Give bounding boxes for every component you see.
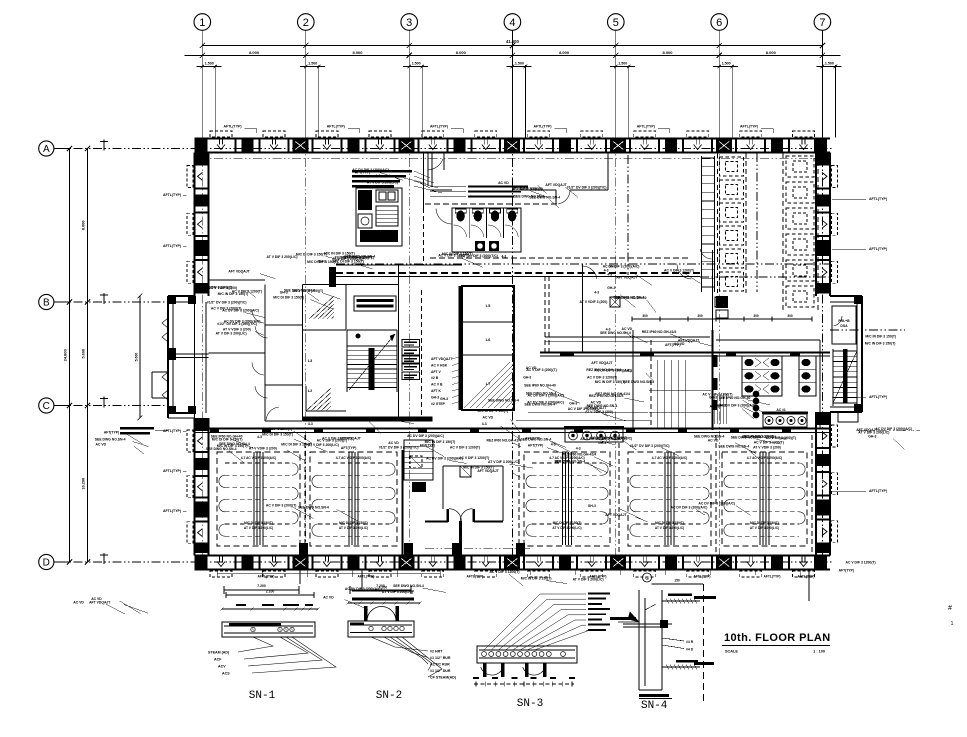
svg-text:AC VD: AC VD [96, 442, 107, 446]
svg-text:A: A [43, 144, 50, 155]
svg-text:4-3: 4-3 [607, 272, 612, 276]
svg-text:AFT VDQAJT: AFT VDQAJT [616, 275, 638, 279]
svg-text:SEE DWG NO.SN-4: SEE DWG NO.SN-4 [613, 296, 644, 300]
svg-text:4-3: 4-3 [551, 443, 556, 447]
svg-text:AC DV DIF 3 (200)(A/C): AC DV DIF 3 (200)(A/C) [426, 456, 463, 460]
svg-text:SEE DWG NO.SN-4: SEE DWG NO.SN-4 [95, 438, 126, 442]
svg-text:M/C DI DIF 3 150(T): M/C DI DIF 3 150(T) [262, 432, 293, 436]
svg-text:AT V VDIF 3 (200): AT V VDIF 3 (200) [209, 286, 237, 290]
svg-text:M/C DI DIF 3 150(T): M/C DI DIF 3 150(T) [273, 296, 304, 300]
svg-text:M/C DI DIF 3 150(T): M/C DI DIF 3 150(T) [478, 409, 509, 413]
svg-text:AT V DIF 3 200(L/C): AT V DIF 3 200(L/C) [267, 255, 298, 259]
svg-text:AC DV DIF 3 (200)(A/C): AC DV DIF 3 (200)(A/C) [407, 434, 444, 438]
svg-text:AFTL(TYP): AFTL(TYP) [466, 575, 483, 579]
svg-text:10.200: 10.200 [82, 478, 86, 490]
svg-text:GH-3: GH-3 [523, 375, 531, 379]
svg-text:AFT(TYP): AFT(TYP) [528, 444, 543, 448]
svg-text:AC DV DIF 3 (200)(A/C): AC DV DIF 3 (200)(A/C) [345, 587, 382, 591]
svg-text:STEAM (AD): STEAM (AD) [208, 651, 230, 655]
svg-text:SEE DWG NO.SN-4: SEE DWG NO.SN-4 [731, 435, 762, 439]
svg-text:AFTL(TYP): AFTL(TYP) [327, 125, 345, 129]
svg-text:4-3: 4-3 [308, 422, 313, 426]
svg-text:AFTL(TYP): AFTL(TYP) [163, 244, 181, 248]
svg-text:GH-3: GH-3 [709, 396, 717, 400]
svg-text:24.800: 24.800 [62, 348, 67, 361]
svg-text:AC #1: AC #1 [776, 408, 786, 412]
svg-text:AT V DIF 3 200(L/C): AT V DIF 3 200(L/C) [573, 578, 604, 582]
svg-text:AFT VDQAJT: AFT VDQAJT [678, 339, 700, 343]
svg-text:ACF: ACF [214, 658, 222, 662]
svg-text:AFT VDQAJT: AFT VDQAJT [591, 361, 613, 365]
svg-text:AC VD: AC VD [91, 597, 102, 601]
svg-text:AT V DIF 3 200(L/C): AT V DIF 3 200(L/C) [244, 526, 273, 530]
svg-text:SEE IP60 NO.GH-40: SEE IP60 NO.GH-40 [719, 396, 751, 400]
svg-text:AFTL(TYP): AFTL(TYP) [693, 575, 710, 579]
svg-text:AC DV DIF 3 (200)(A/C): AC DV DIF 3 (200)(A/C) [698, 502, 735, 506]
svg-text:4-7 AC V DIF 3 200(A/C): 4-7 AC V DIF 3 200(A/C) [747, 456, 782, 460]
svg-text:AC DV DIF 3 (200)(A/C): AC DV DIF 3 (200)(A/C) [671, 505, 708, 509]
svg-text:#1/2" DV DIF 3 (200)(T/C): #1/2" DV DIF 3 (200)(T/C) [630, 444, 670, 448]
svg-text:1.500: 1.500 [722, 62, 731, 66]
svg-text:SEE IP60 NO.GH-40: SEE IP60 NO.GH-40 [211, 435, 243, 439]
svg-text:150: 150 [674, 579, 680, 583]
svg-text:AT V DIF 3 200(L/C): AT V DIF 3 200(L/C) [339, 526, 368, 530]
svg-text:AFTL(TYP): AFTL(TYP) [257, 575, 274, 579]
svg-text:7: 7 [819, 17, 825, 29]
svg-text:SEE DWG NO.SN-4: SEE DWG NO.SN-4 [554, 460, 585, 464]
svg-text:AC V HSK: AC V HSK [431, 363, 448, 367]
svg-text:M/C DI DIF 3 150(T): M/C DI DIF 3 150(T) [281, 443, 312, 447]
svg-text:AC V DIF 3 (200)(T): AC V DIF 3 (200)(T) [266, 503, 297, 507]
svg-text:AFT(TYP): AFT(TYP) [839, 568, 854, 572]
svg-text:AT V DIF 3 200(L/C): AT V DIF 3 200(L/C) [488, 460, 519, 464]
svg-text:4-3: 4-3 [501, 254, 506, 258]
svg-text:4-7 AC V DIF 3 200(A/C): 4-7 AC V DIF 3 200(A/C) [241, 456, 276, 460]
svg-text:1.500: 1.500 [825, 62, 834, 66]
svg-text:AC V DIF 3 1200(T): AC V DIF 3 1200(T) [664, 268, 694, 272]
svg-text:5: 5 [613, 17, 619, 29]
svg-text:#1/2" DV DIF 3 (200)(T/C): #1/2" DV DIF 3 (200)(T/C) [567, 185, 607, 189]
svg-text:AC VD: AC VD [483, 416, 494, 420]
svg-text:AFTL(TYP): AFTL(TYP) [163, 429, 181, 433]
svg-text:M/C DI DIF 3 150(T): M/C DI DIF 3 150(T) [339, 521, 368, 525]
svg-text:300: 300 [642, 314, 648, 318]
svg-text:SEE DWG NO.SN-4: SEE DWG NO.SN-4 [521, 437, 552, 441]
svg-text:#2 B: #2 B [431, 376, 439, 380]
svg-text:AFTL(TYP): AFTL(TYP) [763, 575, 780, 579]
svg-text:M/C DI DIF 3 150(T): M/C DI DIF 3 150(T) [750, 521, 779, 525]
svg-text:CF STEAM(AD): CF STEAM(AD) [430, 676, 457, 680]
svg-text:8.000: 8.000 [81, 220, 85, 230]
svg-text:AFTL(TYP): AFTL(TYP) [869, 247, 887, 251]
svg-text:AC DV DIF 3 (200)(A/C): AC DV DIF 3 (200)(A/C) [224, 320, 261, 324]
svg-text:AC VD: AC VD [73, 600, 84, 604]
svg-text:AFTL(TYP): AFTL(TYP) [430, 125, 448, 129]
svg-text:AFT(TYP): AFT(TYP) [665, 343, 680, 347]
svg-text:REZ IP60 NO.GH-41/4: REZ IP60 NO.GH-41/4 [642, 330, 677, 334]
svg-text:SN-1: SN-1 [249, 690, 276, 702]
svg-text:AC V DIF 3 1200(T): AC V DIF 3 1200(T) [489, 570, 519, 574]
svg-text:AFT VDQAJT: AFT VDQAJT [545, 183, 567, 187]
svg-text:1: 1 [951, 621, 954, 627]
svg-text:AC V DIF 3 (200)(T): AC V DIF 3 (200)(T) [526, 368, 557, 372]
svg-text:AT V VDIF 3 (200): AT V VDIF 3 (200) [753, 445, 781, 449]
svg-text:AC V DIF 3 (200)(T): AC V DIF 3 (200)(T) [293, 289, 324, 293]
svg-text:8.000: 8.000 [456, 50, 467, 55]
svg-text:1.500: 1.500 [618, 62, 627, 66]
svg-text:AT V DIF 3 200(L/C): AT V DIF 3 200(L/C) [216, 332, 247, 336]
svg-text:M/C IN DIF 3 150(T): M/C IN DIF 3 150(T) [865, 335, 896, 339]
svg-text:AFT K: AFT K [431, 389, 442, 393]
svg-text:AFT(TYP): AFT(TYP) [104, 430, 119, 434]
svg-text:PRL+B: PRL+B [838, 319, 850, 323]
svg-text:SCALE: SCALE [725, 650, 738, 654]
svg-text:#4 D: #4 D [686, 648, 694, 652]
svg-text:AFT VDQAJT: AFT VDQAJT [89, 601, 111, 605]
svg-text:GH-3: GH-3 [624, 369, 632, 373]
svg-text:M/C IN DIF 3 150(T): M/C IN DIF 3 150(T) [521, 577, 552, 581]
svg-text:4-7 AC V DIF 3 200(A/C): 4-7 AC V DIF 3 200(A/C) [336, 456, 371, 460]
svg-text:1.500: 1.500 [205, 62, 214, 66]
svg-text:#1/2" DV DIF 3 (200)(T/C): #1/2" DV DIF 3 (200)(T/C) [207, 301, 247, 305]
svg-text:M/C DI DIF 3 150(T): M/C DI DIF 3 150(T) [296, 252, 327, 256]
svg-text:L5: L5 [486, 303, 491, 308]
svg-text:#: # [948, 605, 952, 612]
svg-text:8.000: 8.000 [662, 50, 673, 55]
svg-text:AC DV DIF 3 (200)(A/C): AC DV DIF 3 (200)(A/C) [720, 403, 757, 407]
svg-text:AFTL(TYP): AFTL(TYP) [533, 125, 551, 129]
svg-text:5.600: 5.600 [82, 349, 86, 359]
svg-text:M/C DI DIF 3 150(T): M/C DI DIF 3 150(T) [655, 521, 684, 525]
svg-text:AC VD: AC VD [708, 439, 719, 443]
svg-text:L7: L7 [486, 381, 491, 386]
svg-text:AT V VDIF 3 (200): AT V VDIF 3 (200) [580, 300, 608, 304]
svg-text:SEE DWG NO.SN-4: SEE DWG NO.SN-4 [206, 447, 237, 451]
svg-text:#2 GTEP: #2 GTEP [431, 402, 446, 406]
svg-text:REZ IP60 NO.GH-41/4: REZ IP60 NO.GH-41/4 [562, 453, 597, 457]
svg-text:AT V DIF 3 200(L/C): AT V DIF 3 200(L/C) [655, 526, 684, 530]
svg-text:AFTL(TYP): AFTL(TYP) [223, 125, 241, 129]
svg-text:AC V DIF 3 1200(T): AC V DIF 3 1200(T) [450, 446, 480, 450]
svg-text:AT V VDIF 3 (200): AT V VDIF 3 (200) [249, 446, 277, 450]
svg-text:ACV: ACV [218, 665, 226, 669]
svg-text:AFTL(TYP): AFTL(TYP) [163, 193, 181, 197]
svg-text:AC DV DIF 3 (200)(A/C): AC DV DIF 3 (200)(A/C) [527, 400, 564, 404]
svg-text:AFTL(TYP): AFTL(TYP) [163, 509, 181, 513]
svg-text:1: 1 [199, 17, 205, 29]
svg-text:AFTL(TYP): AFTL(TYP) [869, 395, 887, 399]
svg-text:AC V B: AC V B [431, 383, 443, 387]
svg-text:L2: L2 [308, 389, 312, 393]
svg-text:AFTL(TYP): AFTL(TYP) [163, 469, 181, 473]
svg-text:AC VD: AC VD [323, 596, 334, 600]
svg-text:SEE DWG NO.SN-4: SEE DWG NO.SN-4 [623, 380, 654, 384]
svg-text:AFTL(TYP): AFTL(TYP) [869, 489, 887, 493]
svg-text:AC DV DIF 3 (200)(A/C): AC DV DIF 3 (200)(A/C) [222, 309, 259, 313]
svg-text:8.000: 8.000 [766, 50, 777, 55]
svg-text:3: 3 [406, 17, 412, 29]
svg-text:AC V DIF 3 1200(T): AC V DIF 3 1200(T) [846, 561, 876, 565]
svg-text:1.500: 1.500 [412, 62, 421, 66]
svg-text:AFT V: AFT V [431, 370, 442, 374]
svg-text:1.500: 1.500 [308, 62, 317, 66]
svg-text:AC V DIF 3 1200(T): AC V DIF 3 1200(T) [459, 456, 489, 460]
svg-text:1.500: 1.500 [515, 62, 524, 66]
svg-text:#2 HRT: #2 HRT [430, 650, 443, 654]
svg-text:DSA: DSA [840, 324, 848, 328]
svg-text:AT V DIF 3 200(L/C): AT V DIF 3 200(L/C) [858, 431, 889, 435]
svg-text:ACS: ACS [222, 672, 230, 676]
svg-text:SEE DWG NO.SN-4: SEE DWG NO.SN-4 [298, 505, 329, 509]
svg-text:8.000: 8.000 [559, 50, 570, 55]
svg-text:300: 300 [697, 314, 703, 318]
svg-text:AFT VDQAJT: AFT VDQAJT [431, 357, 453, 361]
svg-text:M/C IN DIF 3 150(T): M/C IN DIF 3 150(T) [512, 187, 543, 191]
svg-text:GH-3: GH-3 [779, 437, 787, 441]
svg-text:SEE IP60 NO.GH-40: SEE IP60 NO.GH-40 [524, 383, 556, 387]
svg-text:300: 300 [753, 314, 759, 318]
svg-text:AFT(TYP): AFT(TYP) [341, 446, 356, 450]
svg-text:AC V DIF 3 1200(T): AC V DIF 3 1200(T) [262, 427, 292, 431]
svg-text:GH-3: GH-3 [588, 504, 596, 508]
svg-text:#4 R: #4 R [686, 640, 694, 644]
svg-text:D: D [43, 557, 50, 568]
svg-text:2.100: 2.100 [266, 590, 275, 594]
svg-text:AC DV DIF 3 (200)(A/C): AC DV DIF 3 (200)(A/C) [352, 168, 389, 172]
svg-text:AT V VDIF 3 (200): AT V VDIF 3 (200) [585, 410, 613, 414]
svg-text:AC V DIF 3 1200(T): AC V DIF 3 1200(T) [587, 376, 617, 380]
svg-text:C: C [43, 401, 50, 412]
svg-text:REZ IP60 NO.GH-41/4: REZ IP60 NO.GH-41/4 [595, 392, 630, 396]
svg-text:REZ IP60 NO.GH-41/4: REZ IP60 NO.GH-41/4 [487, 439, 522, 443]
svg-text:SEE DWG NO.SN-4: SEE DWG NO.SN-4 [393, 584, 424, 588]
svg-text:AFTL(TYP): AFTL(TYP) [797, 575, 814, 579]
svg-text:M/C IN DIF 3 150(T): M/C IN DIF 3 150(T) [218, 292, 249, 296]
svg-text:M/C IN DIF 3 150(T): M/C IN DIF 3 150(T) [370, 416, 401, 420]
svg-text:M/C IN DIF 3 150(T): M/C IN DIF 3 150(T) [442, 252, 473, 256]
svg-text:GH-3: GH-3 [569, 401, 577, 405]
svg-text:AFT VDQAJT: AFT VDQAJT [228, 270, 250, 274]
svg-text:2: 2 [303, 17, 309, 29]
svg-text:5.600: 5.600 [135, 353, 139, 362]
svg-text:AC DV DIF 3 (200)(A/C): AC DV DIF 3 (200)(A/C) [528, 394, 565, 398]
svg-text:AT V DIF 3 200(L/C): AT V DIF 3 200(L/C) [382, 590, 413, 594]
svg-text:SN-4: SN-4 [641, 700, 668, 712]
svg-text:GH-3: GH-3 [609, 264, 617, 268]
svg-text:AT V DIF 3 200(L/C): AT V DIF 3 200(L/C) [552, 526, 581, 530]
svg-text:G: G [645, 576, 649, 581]
svg-text:4-3: 4-3 [376, 174, 381, 178]
svg-text:4: 4 [509, 17, 515, 29]
svg-text:GH-3: GH-3 [598, 441, 606, 445]
svg-text:4-3: 4-3 [482, 422, 487, 426]
svg-text:#1/2" DV DIF 3 (200)(T/C): #1/2" DV DIF 3 (200)(T/C) [335, 256, 375, 260]
svg-text:#1/2" DV DIF 3 (200)(T/C): #1/2" DV DIF 3 (200)(T/C) [379, 446, 419, 450]
svg-text:GH-3: GH-3 [868, 435, 876, 439]
svg-text:AFTL(TYP): AFTL(TYP) [357, 575, 374, 579]
svg-text:10th. FLOOR PLAN: 10th. FLOOR PLAN [724, 632, 831, 644]
svg-text:M/C DI DIF 3 150(T): M/C DI DIF 3 150(T) [244, 521, 273, 525]
svg-text:GH-3: GH-3 [431, 395, 439, 399]
svg-text:SEE DWG NO.SN-4: SEE DWG NO.SN-4 [488, 399, 519, 403]
svg-text:SN-2: SN-2 [376, 690, 402, 702]
svg-text:8.000: 8.000 [352, 50, 363, 55]
svg-text:AFTL(TYP): AFTL(TYP) [637, 125, 655, 129]
svg-text:M/C IN DIF 3 150(T): M/C IN DIF 3 150(T) [865, 342, 896, 346]
svg-text:#1 1/2" RUR: #1 1/2" RUR [430, 656, 451, 660]
svg-text:4-7 AC V DIF 3 200(A/C): 4-7 AC V DIF 3 200(A/C) [652, 456, 687, 460]
svg-text:AC VD: AC VD [498, 181, 509, 185]
svg-text:6: 6 [716, 17, 722, 29]
svg-text:AFT VDQAJT: AFT VDQAJT [605, 513, 627, 517]
svg-text:AFTL(TYP): AFTL(TYP) [740, 125, 758, 129]
svg-text:SEE DWG NO.SN-4: SEE DWG NO.SN-4 [219, 442, 250, 446]
svg-text:M/C IN DIF 3 150(T): M/C IN DIF 3 150(T) [595, 380, 626, 384]
svg-text:SEE DWG NO.SN-4: SEE DWG NO.SN-4 [694, 435, 725, 439]
svg-text:AT V DIF 3 200(L/C): AT V DIF 3 200(L/C) [367, 181, 398, 185]
svg-text:4-3: 4-3 [576, 447, 581, 451]
svg-text:SN-3: SN-3 [517, 698, 543, 710]
svg-text:41.600: 41.600 [506, 39, 519, 44]
svg-text:L3: L3 [308, 359, 312, 363]
svg-text:300: 300 [787, 314, 793, 318]
svg-text:GH-3: GH-3 [440, 397, 448, 401]
svg-text:B: B [43, 297, 50, 308]
svg-text:SEE DWG NO.SN-4: SEE DWG NO.SN-4 [529, 196, 560, 200]
svg-text:AC V DIF 3 (200)(T): AC V DIF 3 (200)(T) [317, 439, 348, 443]
svg-text:AC V DIF 3 (200)(T): AC V DIF 3 (200)(T) [339, 417, 370, 421]
svg-text:ACT/C RUR: ACT/C RUR [430, 663, 450, 667]
svg-text:AT V DIF 3 200(L/C): AT V DIF 3 200(L/C) [750, 526, 779, 530]
svg-text:AT V DIF 3 200(L/C): AT V DIF 3 200(L/C) [308, 443, 339, 447]
svg-text:SEE DWG NO.SN-4: SEE DWG NO.SN-4 [600, 331, 631, 335]
svg-text:GH-3: GH-3 [607, 286, 615, 290]
svg-text:8.000: 8.000 [249, 50, 260, 55]
svg-text:M/C DI DIF 3 150(T): M/C DI DIF 3 150(T) [553, 521, 582, 525]
svg-text:1 : 100: 1 : 100 [813, 650, 825, 654]
svg-text:7.200: 7.200 [257, 584, 266, 588]
svg-text:AFTL(TYP): AFTL(TYP) [869, 197, 887, 201]
svg-text:4-3: 4-3 [594, 291, 599, 295]
svg-text:GH-3: GH-3 [318, 259, 326, 263]
svg-text:L6: L6 [486, 337, 491, 342]
